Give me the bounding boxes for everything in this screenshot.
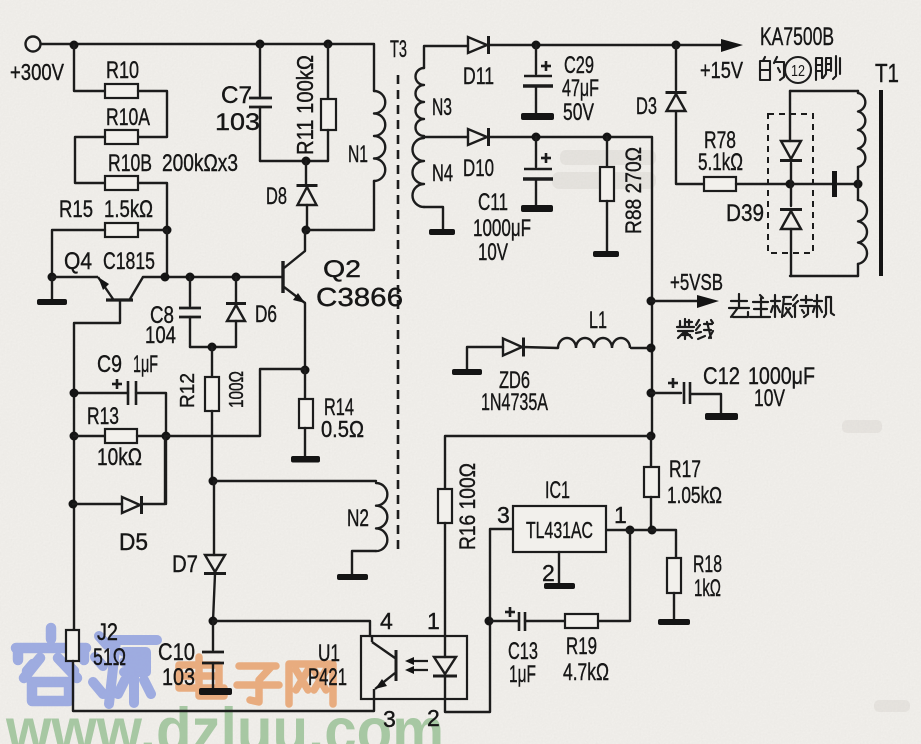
resistor R12 xyxy=(205,377,219,411)
capacitor C9 (electrolytic) xyxy=(112,379,136,405)
wire R13 left lead xyxy=(74,435,105,437)
resistor R10A xyxy=(105,130,138,144)
junction C12 tap xyxy=(647,389,656,398)
junction top rail / R11 xyxy=(324,40,333,49)
transformer T3 core xyxy=(397,75,400,550)
wire R14 bottom lead xyxy=(304,428,306,456)
winding N1 of T3 xyxy=(374,91,385,181)
inductor L1 xyxy=(558,338,630,348)
svg-text:R17: R17 xyxy=(669,456,701,483)
dashed box around D39 xyxy=(768,114,813,253)
junction +5VSB tap xyxy=(647,297,656,306)
wire T1 spine top xyxy=(857,91,859,93)
diode ZD6 (zener) xyxy=(503,338,524,357)
IC U1 TL431 box xyxy=(513,506,606,552)
wire R12 top lead xyxy=(211,347,213,377)
wire C29 top lead xyxy=(535,45,537,74)
svg-text:C1815: C1815 xyxy=(103,248,155,275)
svg-text:C10: C10 xyxy=(158,639,195,666)
transistor Q4 xyxy=(52,277,143,300)
wire R11 top lead xyxy=(327,44,329,99)
junction D7 / C10 / opto pin4 xyxy=(209,617,218,626)
svg-text:10V: 10V xyxy=(754,385,785,412)
capacitor C11 (electrolytic) xyxy=(523,153,553,179)
ground C12 xyxy=(705,413,738,420)
winding N2 of T3 xyxy=(376,483,387,551)
junction R13 right / C9 branch xyxy=(162,432,171,441)
watermark char 子 xyxy=(237,666,279,702)
resistor R16 xyxy=(438,489,452,523)
diode D8 xyxy=(297,186,318,206)
wire R17 bottom lead xyxy=(650,497,652,530)
opto LED xyxy=(433,657,457,676)
junction R15 right / bias xyxy=(163,226,172,235)
wire D6 top lead xyxy=(235,277,237,302)
svg-text:www.dzluu.com: www.dzluu.com xyxy=(5,696,444,744)
wire R88 bottom lead xyxy=(606,201,608,251)
svg-text:R11 100kΩ: R11 100kΩ xyxy=(292,55,318,155)
label CJK 去主板待机 xyxy=(729,294,834,317)
wire N2 top link xyxy=(214,480,376,482)
wire feedback to Q2 emitter xyxy=(166,369,305,436)
svg-text:C11: C11 xyxy=(478,189,508,216)
wire R15 right lead xyxy=(138,229,167,231)
wire R10 right to R10A right xyxy=(138,91,167,137)
junction base rail / C9 branch xyxy=(161,273,170,282)
svg-text:P421: P421 xyxy=(308,664,347,691)
transformer T1 core xyxy=(879,90,883,276)
wire L1 right link xyxy=(631,347,651,349)
opto light arrows xyxy=(405,657,428,674)
wire ZD6 to L1 xyxy=(523,347,558,348)
svg-text:D5: D5 xyxy=(119,529,148,556)
svg-text:100Ω: 100Ω xyxy=(226,371,248,408)
diode D6 xyxy=(226,304,246,322)
capacitor C12 (electrolytic) xyxy=(668,378,690,404)
svg-text:C9: C9 xyxy=(97,351,122,378)
wire C11 top lead xyxy=(535,137,537,167)
junction top rail / C7 xyxy=(256,40,265,49)
winding T1 lower xyxy=(858,200,867,264)
svg-text:D6: D6 xyxy=(255,301,277,328)
junction Q2 collector / N1 / D8 xyxy=(302,226,311,235)
junction D5 anode xyxy=(69,500,78,509)
svg-text:U1: U1 xyxy=(318,640,340,667)
resistor R11 xyxy=(321,99,336,130)
junction D39 center xyxy=(786,180,795,189)
svg-text:10V: 10V xyxy=(478,239,508,266)
junction D3 top xyxy=(672,41,681,50)
svg-text:104: 104 xyxy=(145,322,176,349)
svg-text:47μF: 47μF xyxy=(562,75,599,102)
svg-text:J2: J2 xyxy=(97,619,118,646)
svg-text:R10B: R10B xyxy=(108,150,152,177)
wire +5V rectified rail xyxy=(490,137,652,436)
ground C11 xyxy=(521,205,553,212)
svg-text:+15V: +15V xyxy=(700,57,744,83)
svg-text:R16 100Ω: R16 100Ω xyxy=(455,463,480,550)
wire C7 bottom lead xyxy=(259,107,261,161)
wire R78 to D39 node xyxy=(736,183,790,185)
junction T1 tap xyxy=(854,180,863,189)
capacitor C13 (electrolytic) xyxy=(505,607,525,631)
wire opto pin2 path to TL431 ref xyxy=(445,529,513,712)
wire D39 middle xyxy=(790,163,792,206)
label CJK 的 xyxy=(760,57,784,80)
svg-text:IC1: IC1 xyxy=(545,477,570,504)
svg-text:1: 1 xyxy=(614,502,627,528)
resistor R78 xyxy=(704,177,736,191)
svg-text:1N4735A: 1N4735A xyxy=(481,389,548,416)
wire link C8/D6 bottoms xyxy=(190,346,236,348)
svg-text:1μF: 1μF xyxy=(133,351,158,378)
svg-text:C3866: C3866 xyxy=(316,282,403,312)
svg-text:4: 4 xyxy=(380,608,393,634)
svg-text:D8: D8 xyxy=(266,183,287,210)
svg-text:200kΩx3: 200kΩx3 xyxy=(162,150,238,177)
wire D39 top branch xyxy=(789,91,791,141)
svg-text:103: 103 xyxy=(215,109,260,136)
resistor R13 xyxy=(105,429,137,443)
wire Q4 ground stem xyxy=(51,277,53,299)
svg-text:N4: N4 xyxy=(432,160,453,187)
wire D3 to R78 xyxy=(676,112,704,184)
wire D39 bottom branch xyxy=(790,229,792,276)
scan bleed noise xyxy=(552,150,910,712)
wire R19 to pin1 node xyxy=(598,530,630,621)
svg-text:R12: R12 xyxy=(177,373,199,408)
svg-text:R10A: R10A xyxy=(106,104,150,131)
junction R88 top xyxy=(603,133,612,142)
resistor R88 xyxy=(600,167,614,201)
label circled 12 pin xyxy=(785,57,811,83)
svg-text:R15: R15 xyxy=(59,196,93,223)
diode D10 xyxy=(468,128,489,146)
svg-text:D39: D39 xyxy=(726,200,764,227)
winding T1 upper xyxy=(858,93,865,167)
winding N4 of T3 xyxy=(413,138,425,207)
svg-text:T3: T3 xyxy=(390,36,407,63)
ground N4 return xyxy=(429,229,455,235)
svg-text:Q4: Q4 xyxy=(64,248,92,275)
capacitor C8 xyxy=(179,308,201,317)
diode D39 upper xyxy=(780,141,802,161)
svg-text:R19: R19 xyxy=(566,633,597,660)
wire TL431 pin2 stem xyxy=(558,552,560,583)
wire N3/N4 tap to D10 xyxy=(424,136,468,138)
svg-text:L1: L1 xyxy=(589,307,607,334)
svg-text:R18: R18 xyxy=(693,551,722,578)
svg-text:D7: D7 xyxy=(172,551,198,578)
wire C8 top lead xyxy=(189,277,191,306)
junction C13 left node xyxy=(485,617,494,626)
wire C8 bottom lead xyxy=(189,317,191,347)
svg-text:D10: D10 xyxy=(463,155,494,182)
resistor R10 xyxy=(105,84,138,98)
label CJK 紫线 xyxy=(677,319,713,339)
junction R12 bottom / N2 / D7 xyxy=(209,477,218,486)
junction R17 bottom / R18 xyxy=(648,526,657,535)
junction base rail / D6 xyxy=(232,273,241,282)
svg-text:+5VSB: +5VSB xyxy=(670,269,723,295)
svg-text:R10: R10 xyxy=(106,57,139,84)
svg-text:1μF: 1μF xyxy=(509,661,536,688)
svg-text:5.1kΩ: 5.1kΩ xyxy=(698,149,743,176)
ground Q4 emitter xyxy=(37,299,67,305)
wire N1 bottom link xyxy=(306,181,374,230)
junction D8 anode node xyxy=(302,157,311,166)
svg-text:10kΩ: 10kΩ xyxy=(97,444,142,471)
wire T1 spine tap xyxy=(857,167,859,200)
svg-text:2: 2 xyxy=(542,560,555,586)
svg-text:1000μF: 1000μF xyxy=(473,215,531,242)
opto phototransistor xyxy=(372,636,396,699)
wire D8 top lead xyxy=(305,161,307,184)
svg-text:D3: D3 xyxy=(636,93,657,120)
resistor R15 xyxy=(105,223,138,237)
svg-text:3: 3 xyxy=(383,706,396,732)
svg-text:4.7kΩ: 4.7kΩ xyxy=(563,659,609,686)
paper scan noise xyxy=(0,0,1,1)
wire D6 bottom lead xyxy=(235,321,237,347)
terminal +300V input xyxy=(26,37,41,52)
svg-text:T1: T1 xyxy=(875,58,899,88)
junction L1 right xyxy=(647,344,656,353)
svg-text:N1: N1 xyxy=(348,141,368,168)
wire C11 bottom lead xyxy=(535,180,537,205)
wire C13 to R19 xyxy=(525,620,565,622)
ground TL431 xyxy=(544,583,575,589)
wire sense rail xyxy=(445,436,651,489)
watermark char 网 xyxy=(289,664,333,704)
junction C29 top xyxy=(532,41,541,50)
wire opto pin4 link xyxy=(213,621,370,636)
wire N4 bottom to ground xyxy=(424,207,443,229)
junction base rail / C8 xyxy=(186,273,195,282)
svg-text:R88 270Ω: R88 270Ω xyxy=(621,147,646,234)
capacitor C10 xyxy=(202,652,224,663)
ground R88 xyxy=(593,251,619,257)
svg-text:1kΩ: 1kΩ xyxy=(694,575,721,602)
svg-text:50V: 50V xyxy=(563,99,594,126)
wire R18 bottom lead xyxy=(673,593,675,619)
wire J2 top lead xyxy=(73,629,74,631)
wire C12 left lead xyxy=(651,392,681,394)
watermark char 电 xyxy=(179,657,224,696)
wire R10B right to R15 right xyxy=(138,183,167,230)
diode D11 xyxy=(468,36,489,54)
junction C11 top xyxy=(532,133,541,142)
wire T1 top link xyxy=(790,90,858,92)
wire R12 bottom lead xyxy=(211,411,213,481)
wire opto pin1 inside xyxy=(444,636,446,657)
diode D39 lower xyxy=(780,210,802,230)
ground R18 xyxy=(658,619,690,625)
wire bias node down to base rail xyxy=(166,230,168,277)
svg-text:Q2: Q2 xyxy=(323,256,361,283)
wire C9 left lead xyxy=(74,392,128,394)
wire C9 right lead xyxy=(136,393,166,504)
svg-text:N3: N3 xyxy=(432,94,452,121)
junction C9 left xyxy=(70,389,79,398)
diode D5 xyxy=(122,496,142,514)
wire R17 top lead xyxy=(650,436,652,467)
junction R13 left xyxy=(70,432,79,441)
capacitor C29 (electrolytic) xyxy=(523,61,553,86)
wire +5VSB arrow line xyxy=(651,300,698,302)
wire R10A left to R10B left xyxy=(75,137,105,183)
transistor Q2 xyxy=(283,251,305,303)
svg-text:D11: D11 xyxy=(463,63,494,90)
resistor R14 xyxy=(299,399,313,428)
wire N2 bottom link xyxy=(352,551,376,574)
svg-text:0.5Ω: 0.5Ω xyxy=(321,416,364,442)
wire D7 top lead xyxy=(213,481,215,555)
wire Q4 base down-left xyxy=(74,301,120,630)
junction R12 top node xyxy=(208,343,217,352)
junction Q2 emitter / R14 xyxy=(301,366,310,375)
junction Q4 emitter node xyxy=(48,273,57,282)
junction R17 top xyxy=(647,432,656,441)
ground N2 xyxy=(337,574,368,580)
wire link C7/R11 bottoms xyxy=(260,160,328,162)
resistor R18 xyxy=(667,558,681,593)
wire T1 center tap left xyxy=(790,183,832,185)
label CJK 脚 xyxy=(816,56,840,80)
wire D5 right lead xyxy=(142,436,165,504)
ground R14 xyxy=(291,456,320,463)
svg-text:1.5kΩ: 1.5kΩ xyxy=(104,196,153,223)
wire Q4 collector rail to Q2 base xyxy=(143,276,282,278)
junction TL431 ref / R19 xyxy=(626,526,635,535)
svg-text:KA7500B: KA7500B xyxy=(760,23,834,51)
wire C7 top lead xyxy=(259,44,261,96)
svg-text:N2: N2 xyxy=(347,505,369,532)
diode D7 xyxy=(204,555,226,574)
wire ZD6 anode to ground xyxy=(467,347,503,369)
winding N3 of T3 xyxy=(416,68,425,136)
capacitor C7 xyxy=(249,98,272,107)
wire T1 center tap right xyxy=(837,183,858,185)
watermark char 容 xyxy=(16,628,86,701)
wire R16 bottom to opto pin1 xyxy=(444,523,446,636)
ground ZD6 xyxy=(452,369,482,375)
wire R88 top lead xyxy=(606,137,608,167)
resistor R19 xyxy=(565,614,598,628)
svg-text:12: 12 xyxy=(791,63,805,80)
wire N3 top to D11 xyxy=(424,46,468,68)
wire C29 bottom lead xyxy=(535,87,537,113)
ground C10 xyxy=(199,688,232,695)
svg-text:R13: R13 xyxy=(87,403,119,430)
wire D8 bottom lead xyxy=(306,205,308,230)
resistor R17 xyxy=(644,467,659,497)
arrow +5VSB output xyxy=(697,295,719,308)
wire R11 bottom lead xyxy=(327,130,329,161)
junction top rail / R10 ladder xyxy=(70,41,79,50)
wire R14 top lead xyxy=(304,370,306,399)
wire R15 left to Q4 emitter node xyxy=(52,230,105,277)
wire TL431 pin1 row xyxy=(606,530,676,558)
svg-text:C7: C7 xyxy=(221,82,252,109)
wire R13 right lead xyxy=(137,435,166,437)
svg-text:C12: C12 xyxy=(703,363,740,390)
svg-text:103: 103 xyxy=(162,664,195,691)
wire Q2 collector lead xyxy=(304,231,306,251)
T1 center tap bar xyxy=(832,171,837,197)
wire top rail +300V to N1 xyxy=(41,44,374,91)
wire C10 top lead xyxy=(212,621,214,650)
wire bottom rail to opto pin3 xyxy=(73,661,374,711)
wire T1 spine bottom xyxy=(857,264,859,276)
wire D5 left lead xyxy=(73,503,122,505)
svg-text:1: 1 xyxy=(427,608,440,634)
wire +15V rail xyxy=(490,44,722,46)
wire C10 bottom lead xyxy=(212,663,214,688)
wire D7 bottom lead xyxy=(213,574,215,621)
diode D3 xyxy=(666,93,687,112)
wire Q2 emitter lead xyxy=(304,303,306,370)
svg-text:3: 3 xyxy=(497,502,510,528)
svg-text:2: 2 xyxy=(427,705,440,731)
watermark char 源 xyxy=(93,636,157,704)
resistor R10B xyxy=(105,176,138,190)
wire C12 right lead to ground xyxy=(690,394,721,413)
ground C29 xyxy=(521,113,554,120)
wire R10 left lead xyxy=(74,45,105,91)
resistor J2 xyxy=(66,630,79,661)
svg-text:+300V: +300V xyxy=(10,59,65,85)
svg-text:51Ω: 51Ω xyxy=(93,644,126,671)
svg-text:TL431AC: TL431AC xyxy=(526,517,593,543)
wire T1 bottom link xyxy=(790,275,858,277)
wire C13 left lead xyxy=(490,620,519,622)
optocoupler U1 box xyxy=(361,636,467,699)
wire D3 top lead xyxy=(675,45,677,90)
svg-text:1.05kΩ: 1.05kΩ xyxy=(667,482,722,508)
arrow +15V output xyxy=(721,39,743,52)
